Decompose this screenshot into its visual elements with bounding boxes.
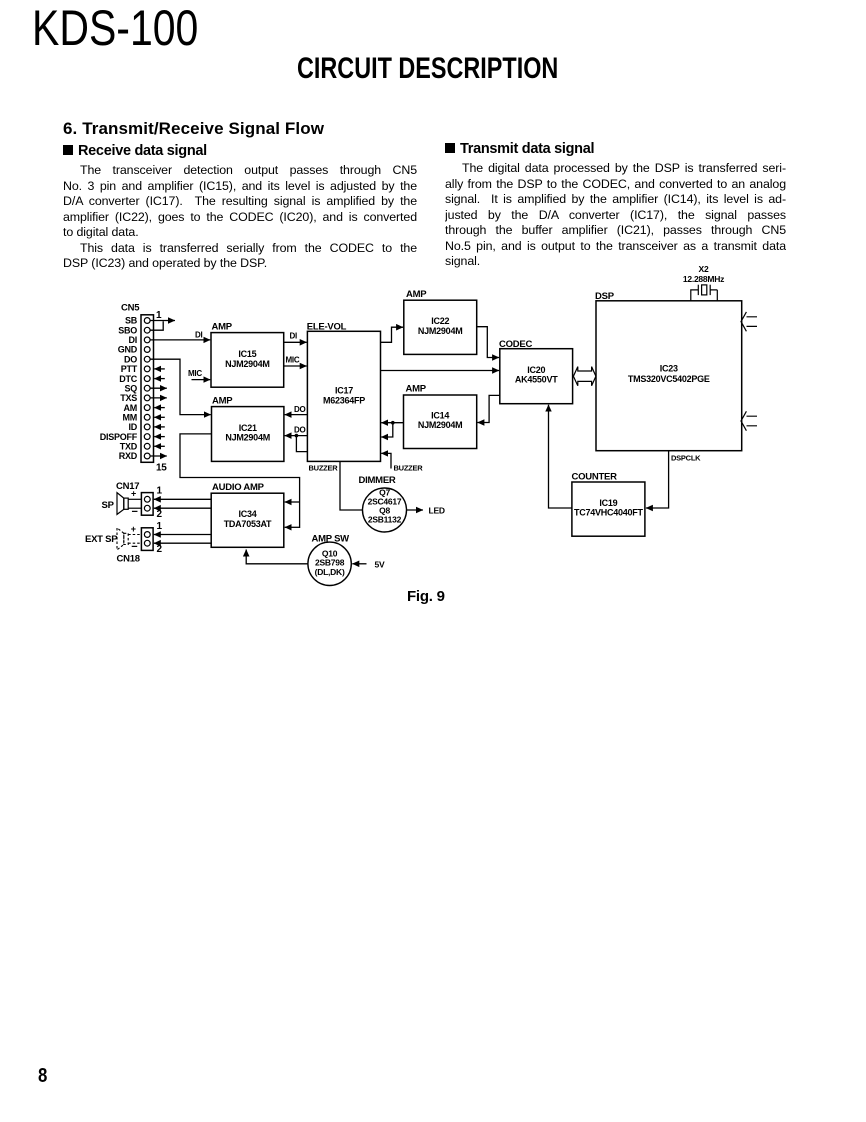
counter IC19 [572,482,645,536]
svg-text:(DL,DK): (DL,DK) [315,567,345,577]
wire CN18 pin1 to IC34 [154,534,211,536]
svg-text:RXD: RXD [119,451,138,461]
wire SQ stub [150,387,167,389]
wire SP to CN17 pin1 [128,498,141,500]
svg-text:PTT: PTT [121,364,138,374]
svg-text:BUZZER: BUZZER [309,463,339,472]
wire IC21 output to IC34 [180,434,300,528]
node junction DO [295,434,299,438]
svg-text:TXD: TXD [120,442,138,452]
svg-text:DI: DI [129,335,138,345]
svg-text:CN18: CN18 [117,553,140,564]
wire MIC input to IC15 [192,379,211,381]
wire EXT SP to CN18 pin2 (dashed) [128,542,141,544]
svg-text:1: 1 [157,521,163,532]
svg-text:NJM2904M: NJM2904M [225,359,270,369]
svg-text:+: + [131,489,136,499]
DSP IC23 [596,301,742,451]
svg-text:LED: LED [429,506,445,516]
svg-text:TC74VHC4040FT: TC74VHC4040FT [574,508,644,518]
svg-text:IC21: IC21 [239,423,257,433]
bus arrow DSP right upper [741,312,757,331]
svg-text:IC17: IC17 [335,385,353,395]
svg-text:GND: GND [118,345,138,355]
wire IC19 to CODEC [549,405,572,508]
wire IC17 to CODEC [381,370,500,372]
wire SBO jog to SB [150,321,163,330]
connector CN18 [141,528,153,551]
wire IC14 to IC17 upper [381,422,403,424]
svg-text:NJM2904M: NJM2904M [418,326,463,336]
svg-text:SB: SB [125,316,138,326]
svg-text:−: − [132,506,138,518]
wire IC14 to IC17 lower [381,423,393,437]
connector CN17 [141,493,153,516]
amplifier IC14 [404,395,477,449]
svg-text:M62364FP: M62364FP [323,395,365,405]
svg-text:2: 2 [157,544,163,555]
svg-text:IC20: IC20 [527,365,545,375]
electronic volume IC17 [307,331,380,461]
wire CODEC to IC14 [477,395,499,422]
node junction IC14 output [391,421,395,425]
svg-text:DI: DI [195,331,203,340]
svg-text:12.288MHz: 12.288MHz [683,274,724,284]
wire IC15 to IC17 DI [284,341,307,343]
wire AM stub [154,407,165,409]
svg-text:DSP: DSP [595,291,615,302]
svg-text:DSPCLK: DSPCLK [671,453,701,462]
svg-text:IC14: IC14 [431,411,449,421]
svg-text:EXT SP: EXT SP [85,534,118,545]
bus arrow DSP right lower [741,411,757,430]
wire DSPCLK to IC19 [646,451,669,508]
wire RXD stub [150,455,167,457]
svg-text:1: 1 [156,310,162,321]
svg-text:DO: DO [294,405,306,414]
svg-text:AK4550VT: AK4550VT [515,375,558,385]
svg-text:2: 2 [157,509,163,520]
svg-text:AM: AM [124,403,138,413]
svg-text:SP: SP [102,500,115,511]
wire BUZZER input to IC17 [381,453,391,468]
bus arrow CODEC-DSP [573,367,596,386]
amplifier IC15 [211,333,284,388]
wire CN17 pin2 to IC34 [154,507,211,509]
wire DISPOFF stub [154,436,165,438]
wire TXS stub [150,397,167,399]
svg-text:1: 1 [157,486,163,497]
svg-text:CN5: CN5 [121,303,140,314]
connector CN5 [141,315,154,463]
svg-text:Fig. 9: Fig. 9 [407,588,445,605]
dimmer transistors Q7 Q8 [363,487,407,532]
amp switch transistor Q10 [308,542,351,585]
svg-text:15: 15 [156,463,167,474]
svg-text:NJM2904M: NJM2904M [225,432,270,442]
wire PTT stub [154,368,165,370]
svg-text:BUZZER: BUZZER [394,463,424,472]
svg-text:CODEC: CODEC [499,339,532,350]
svg-text:DO: DO [124,354,137,364]
pin name labels [100,316,138,462]
amplifier IC22 [404,300,477,354]
svg-text:5V: 5V [375,559,385,569]
svg-text:ELE-VOL: ELE-VOL [307,321,347,332]
wire CN17 pin1 to IC34 [154,498,211,500]
svg-text:ID: ID [129,422,138,432]
svg-text:IC22: IC22 [431,316,449,326]
wire SP to CN17 pin2 [128,507,141,509]
wire DO loop to IC17 [296,436,307,452]
svg-text:−: − [131,541,137,553]
svg-text:AUDIO AMP: AUDIO AMP [212,482,265,493]
codec IC20 [500,349,573,404]
svg-text:AMP: AMP [212,321,233,332]
svg-text:AMP: AMP [406,289,427,300]
svg-text:SQ: SQ [124,383,137,393]
speaker EXT SP (dashed) [117,528,128,550]
wire arrow into IC34 upper [285,501,300,503]
svg-text:TXS: TXS [120,393,137,403]
svg-text:+: + [131,524,136,534]
wire IC17 to IC21 DO lower [285,435,308,437]
amplifier IC21 [212,407,284,462]
svg-text:NJM2904M: NJM2904M [418,420,463,430]
svg-text:DO: DO [294,425,306,434]
wire 5V to Q10 [352,563,366,565]
wire DI to IC15 [150,339,210,341]
speaker SP [117,493,128,515]
wire IC15 to IC17 MIC [284,365,307,367]
wire arrow into IC34 lower [285,526,300,528]
wire TXD stub [154,445,165,447]
crystal X2 [691,285,718,302]
wire IC17 to IC22 [381,327,404,342]
svg-text:TDA7053AT: TDA7053AT [224,519,272,529]
svg-text:SBO: SBO [118,325,137,335]
svg-text:AMP: AMP [212,395,233,406]
svg-text:DIMMER: DIMMER [359,475,396,486]
svg-text:MIC: MIC [188,369,202,378]
wire DIMMER to LED [407,509,423,511]
wire MM stub [154,416,165,418]
audio amplifier IC34 [211,493,284,547]
wire IC17 to IC21 DO upper [285,414,308,416]
wire CN18 pin2 to IC34 [154,542,211,544]
svg-text:2SB1132: 2SB1132 [368,514,402,524]
svg-text:IC15: IC15 [238,349,256,359]
svg-text:DTC: DTC [119,374,137,384]
wire Q10 to IC34 [246,550,308,564]
svg-text:DISPOFF: DISPOFF [100,432,138,442]
svg-text:IC34: IC34 [238,509,256,519]
wire EXT SP to CN18 pin1 (dashed) [128,534,141,536]
svg-text:X2: X2 [699,264,709,274]
svg-text:MM: MM [123,413,138,423]
wire SB output [150,320,175,322]
wire DTC stub [154,378,165,380]
svg-text:AMP SW: AMP SW [312,533,350,544]
svg-text:IC23: IC23 [660,364,678,374]
svg-text:DI: DI [290,331,298,340]
wire IC22 to CODEC [477,327,499,358]
wire ID stub [154,426,165,428]
svg-text:IC19: IC19 [599,498,617,508]
svg-text:MIC: MIC [286,356,300,365]
wire DO to IC21 [150,359,211,414]
wire IC17 to DIMMER [340,461,363,510]
svg-text:COUNTER: COUNTER [572,471,618,482]
svg-text:AMP: AMP [406,383,427,394]
svg-text:TMS320VC5402PGE: TMS320VC5402PGE [628,374,710,384]
